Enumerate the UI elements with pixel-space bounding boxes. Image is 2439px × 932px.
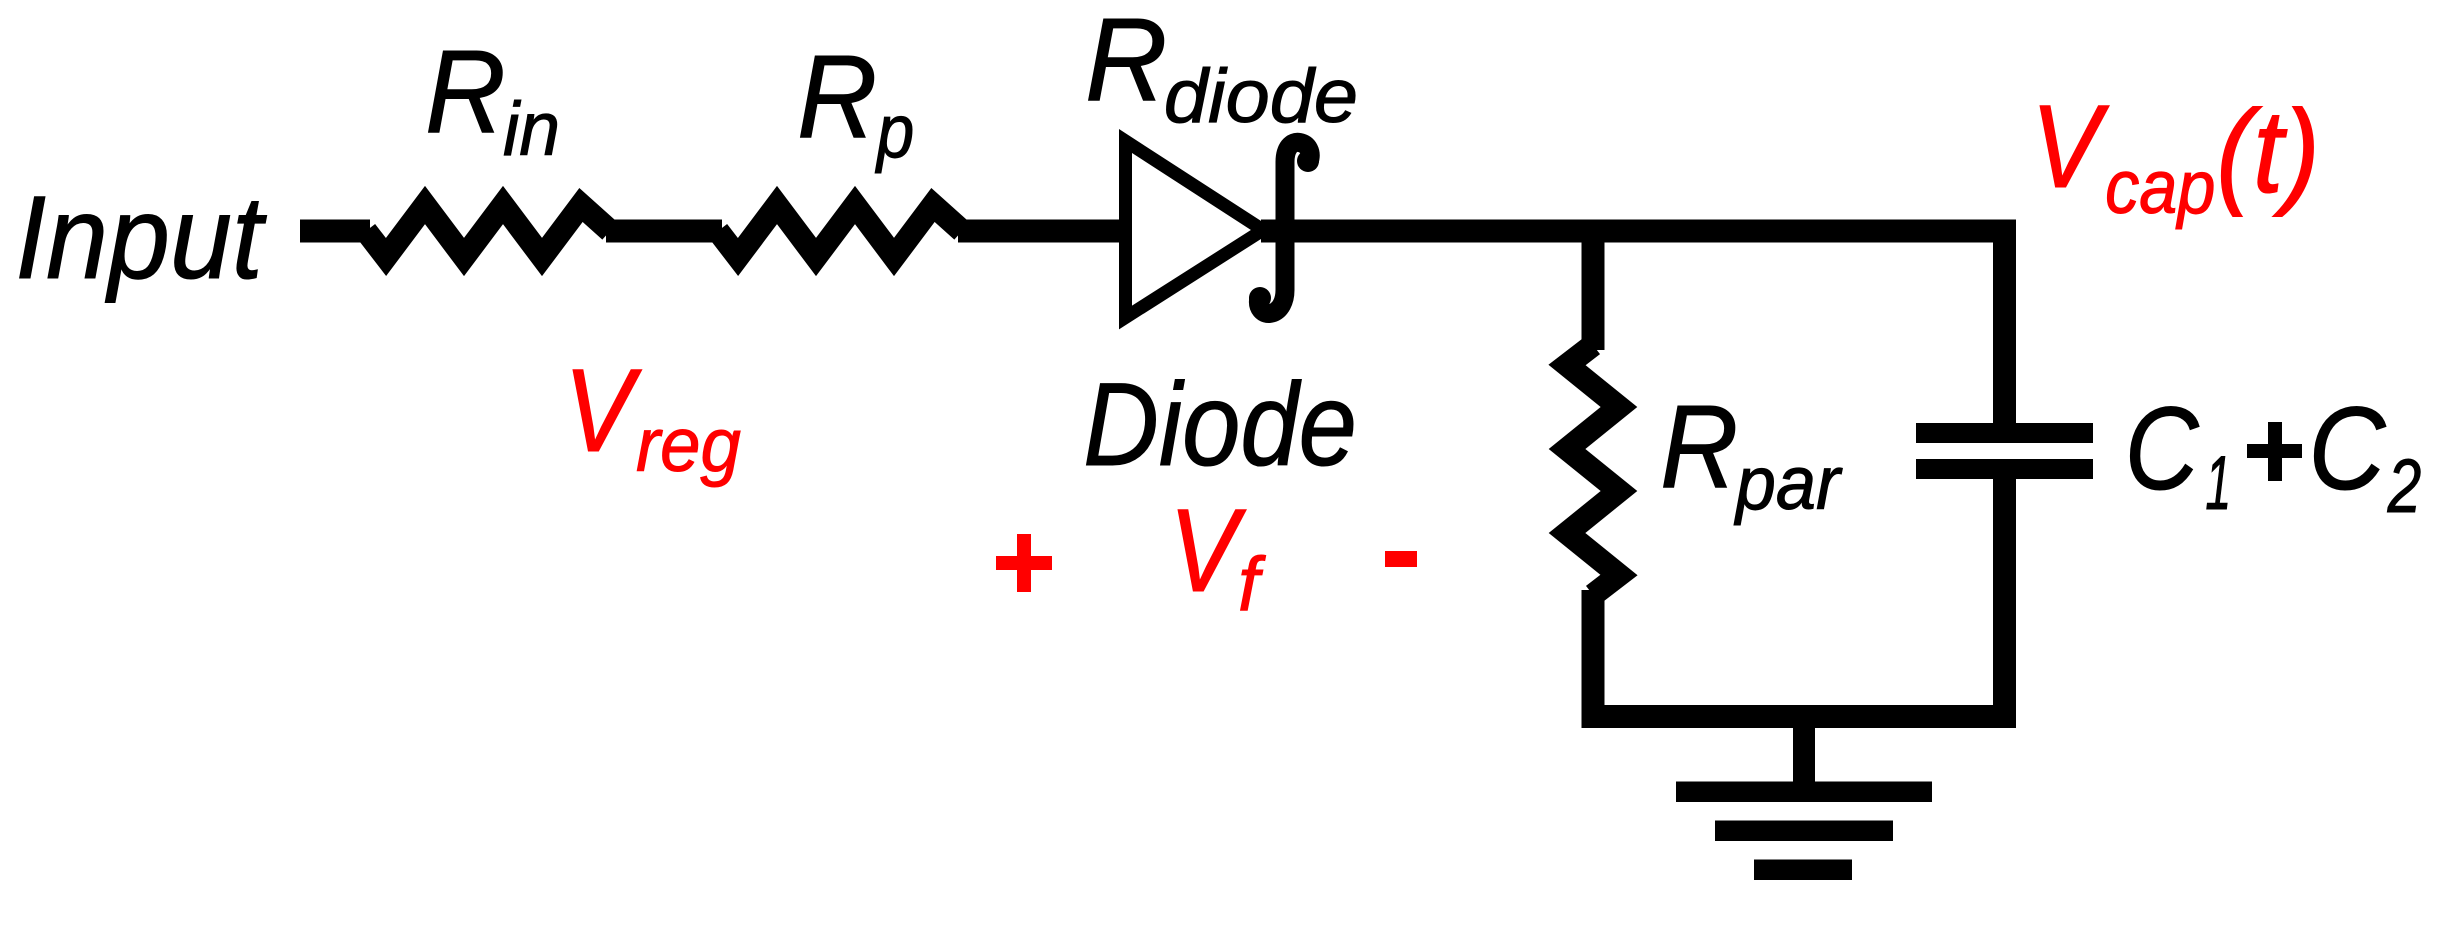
svg-text:(t): (t) [2216, 86, 2320, 218]
svg-text:R: R [1660, 381, 1738, 513]
svg-text:V: V [564, 345, 642, 477]
wire Rin to Rp [606, 220, 722, 243]
resistor R3 Rpar zigzag [1567, 345, 1619, 595]
node junction vertical wire to Rpar [1582, 231, 1605, 350]
svg-text:reg: reg [636, 403, 741, 488]
capacitor label plus sign [2247, 444, 2302, 458]
svg-text:V: V [2031, 81, 2109, 213]
svg-text:R: R [1085, 0, 1167, 126]
diode voltage minus sign (red) [1385, 551, 1417, 567]
svg-text:p: p [875, 89, 914, 174]
svg-text:C: C [2125, 383, 2199, 515]
svg-text:V: V [1169, 485, 1246, 617]
svg-text:par: par [1734, 441, 1843, 526]
wire Rpar bottom and bottom rail to capacitor [1593, 470, 2005, 717]
wire Rp to diode [958, 220, 1120, 243]
wire diode to right corner and down to capacitor [1261, 231, 2005, 428]
svg-text:Diode: Diode [1083, 359, 1357, 491]
svg-text:in: in [503, 87, 560, 172]
svg-text:2: 2 [2387, 444, 2421, 529]
svg-text:R: R [425, 26, 506, 158]
diode voltage plus sign (red) [996, 556, 1052, 570]
capacitor C1 bottom plate [1916, 459, 2093, 479]
diode D1 triangle [1126, 141, 1264, 318]
ground bar 2 [1715, 821, 1893, 842]
svg-text:diode: diode [1164, 54, 1358, 139]
svg-text:f: f [1238, 542, 1266, 627]
svg-text:C: C [2309, 383, 2387, 515]
svg-text:1: 1 [2205, 441, 2231, 526]
svg-text:cap: cap [2105, 145, 2215, 230]
ground bar 3 [1754, 860, 1852, 881]
svg-text:Input: Input [15, 172, 267, 304]
ground stub wire [1793, 716, 1815, 785]
svg-text:R: R [797, 31, 877, 163]
ground bar 1 [1676, 782, 1932, 803]
resistor R2 Rp zigzag [718, 205, 962, 257]
capacitor C1 top plate [1916, 423, 2093, 443]
resistor R1 Rin zigzag [366, 205, 610, 257]
diode D1 schottky cathode curl [1258, 142, 1310, 313]
wire input to Rin [300, 220, 370, 243]
diode D1 cathode curl tip bulbs [1297, 150, 1319, 172]
